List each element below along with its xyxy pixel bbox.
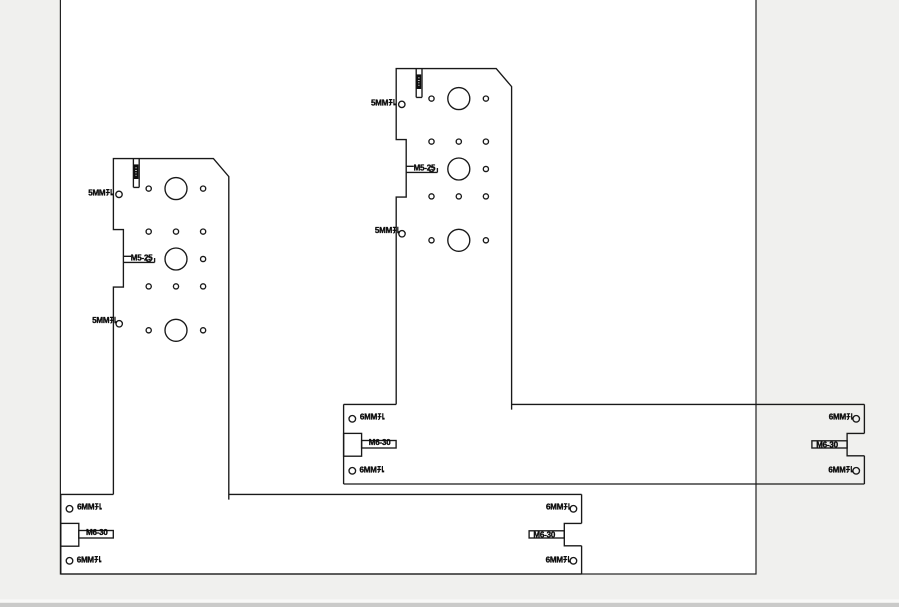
drawing sheet [60,0,756,574]
assembly 1 (left) [61,159,582,574]
assembly 2 (right) [344,69,865,484]
bottom window strips [0,599,899,602]
